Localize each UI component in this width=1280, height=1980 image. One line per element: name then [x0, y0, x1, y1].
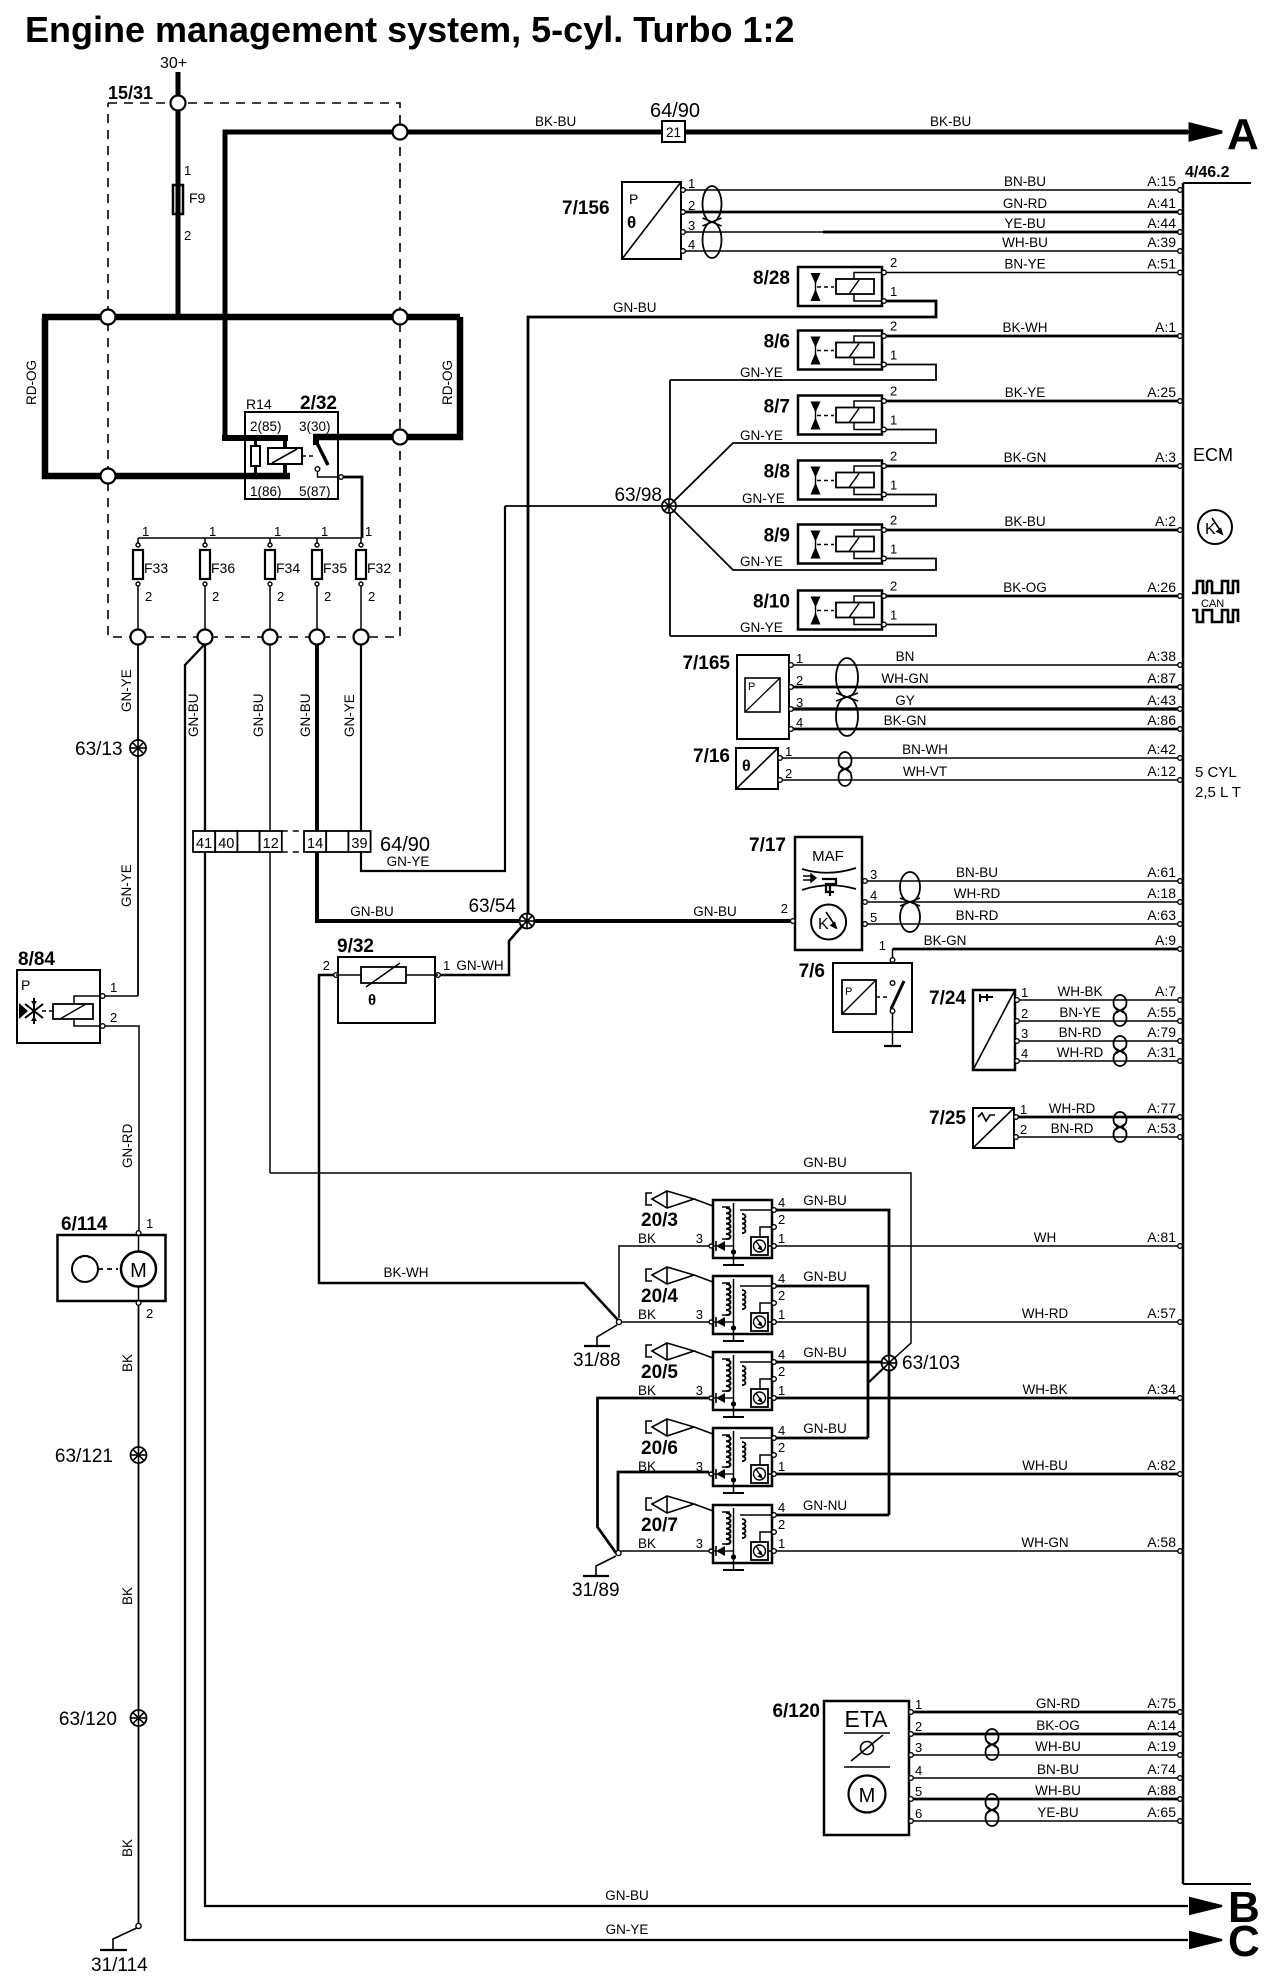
svg-text:GN-YE: GN-YE	[606, 1922, 649, 1937]
twisted pair 7/165	[836, 658, 858, 697]
svg-text:20/5: 20/5	[641, 1362, 678, 1383]
svg-text:1: 1	[1021, 985, 1028, 1000]
svg-text:14: 14	[307, 836, 323, 852]
svg-text:P: P	[845, 986, 852, 998]
wire GN-BU long feed to 63/103	[270, 1173, 911, 1363]
sensor 7/24	[973, 990, 1015, 1070]
svg-text:1: 1	[890, 608, 897, 623]
wire YE-BU to A:44	[685, 231, 823, 233]
wire BN-BU to A:15	[685, 189, 1178, 191]
fuse box 15/31 dashed outline	[108, 103, 400, 637]
svg-text:WH-BK: WH-BK	[1023, 1382, 1068, 1397]
svg-text:8/10: 8/10	[753, 592, 790, 613]
svg-text:1: 1	[688, 176, 695, 191]
svg-text:63/54: 63/54	[468, 896, 516, 917]
svg-text:P: P	[21, 977, 30, 993]
MAF K circle	[811, 905, 846, 940]
svg-text:1: 1	[274, 524, 281, 539]
svg-text:GN-BU: GN-BU	[803, 1193, 847, 1208]
injector 8/28	[798, 267, 882, 306]
svg-text:1: 1	[890, 284, 897, 299]
node fuse F33 on dashed box	[131, 630, 146, 645]
wire BN-YE to A:55	[1019, 1020, 1178, 1022]
ignition coil 20/3	[646, 1193, 652, 1205]
wire BK-BU from 8/9 to A:2	[886, 529, 1178, 532]
svg-text:BK-WH: BK-WH	[384, 1265, 429, 1280]
svg-text:A:75: A:75	[1147, 1695, 1176, 1711]
wire BK-GN from 8/8 to A:3	[886, 465, 1178, 468]
injector 8/6	[798, 331, 882, 370]
svg-text:GN-YE: GN-YE	[740, 620, 783, 635]
svg-text:4: 4	[778, 1271, 785, 1286]
svg-text:6/120: 6/120	[772, 1701, 820, 1722]
wire BN-BU to A:74	[913, 1777, 1178, 1779]
svg-text:4: 4	[778, 1500, 785, 1515]
sensor 7/25	[973, 1108, 1014, 1148]
svg-text:A:18: A:18	[1147, 885, 1176, 901]
svg-text:GN-WH: GN-WH	[456, 958, 503, 973]
svg-text:A:2: A:2	[1155, 513, 1176, 529]
wire BN-RD to A:53	[1018, 1136, 1178, 1138]
svg-text:30+: 30+	[160, 55, 187, 72]
svg-text:31/88: 31/88	[573, 1350, 621, 1371]
wire BK-GN to A:86	[793, 728, 1178, 731]
svg-text:1: 1	[365, 524, 372, 539]
wire relay 5(87) output to fuse rail	[343, 477, 362, 538]
wire BN-BU to A:61	[867, 880, 1178, 882]
ground 31/88	[616, 1319, 621, 1324]
svg-text:BK-BU: BK-BU	[930, 114, 971, 129]
svg-text:A:9: A:9	[1155, 932, 1176, 948]
svg-text:BK: BK	[638, 1536, 656, 1551]
wire BN to A:38	[793, 664, 1178, 666]
svg-text:BK: BK	[120, 1839, 135, 1857]
wire WH-BK from 20/5 pin 1 to A:34	[776, 1397, 1178, 1400]
wire GN-BU from F34 down (long)	[269, 644, 271, 1173]
svg-text:5: 5	[915, 1784, 922, 1799]
svg-text:WH-GN: WH-GN	[881, 671, 928, 686]
svg-text:A:74: A:74	[1147, 1761, 1176, 1777]
wire GN-YE return of 8/6	[670, 365, 936, 381]
svg-text:2: 2	[778, 1440, 785, 1455]
svg-text:M: M	[130, 1260, 147, 1282]
node left loop crosses dashed	[101, 469, 116, 484]
relay 2/32 (R14)	[245, 412, 338, 499]
svg-text:2: 2	[110, 1010, 117, 1025]
svg-text:4: 4	[915, 1763, 922, 1778]
svg-text:8/6: 8/6	[764, 332, 790, 353]
svg-text:8/9: 8/9	[764, 526, 790, 547]
svg-text:BN: BN	[896, 649, 915, 664]
svg-text:A:19: A:19	[1147, 1738, 1176, 1754]
svg-text:GN-BU: GN-BU	[251, 694, 266, 738]
svg-text:A:26: A:26	[1147, 579, 1176, 595]
wire BN-RD to A:79	[1019, 1040, 1178, 1042]
svg-text:A:43: A:43	[1147, 692, 1176, 708]
svg-text:2: 2	[324, 589, 331, 604]
svg-text:21: 21	[666, 125, 681, 140]
svg-text:BK-OG: BK-OG	[1036, 1718, 1080, 1733]
svg-text:1(86): 1(86)	[250, 484, 282, 499]
svg-text:YE-BU: YE-BU	[1037, 1805, 1078, 1820]
relay coil feed 2(85)	[222, 435, 288, 441]
svg-text:2: 2	[1021, 1006, 1028, 1021]
svg-text:F34: F34	[276, 560, 300, 576]
connector 64/90 pin 21 box	[662, 121, 685, 142]
svg-text:5(87): 5(87)	[299, 484, 331, 499]
ignition coil 20/6	[646, 1421, 652, 1433]
svg-text:5: 5	[870, 910, 877, 925]
svg-text:1: 1	[785, 744, 792, 759]
wire WH-BU from 20/6 pin 1 to A:82	[776, 1473, 1178, 1476]
wire WH-RD to A:18	[867, 901, 1178, 903]
svg-text:A:12: A:12	[1147, 763, 1176, 779]
svg-text:A:1: A:1	[1155, 319, 1176, 335]
svg-text:GN-YE: GN-YE	[740, 428, 783, 443]
sensor 7/165	[737, 655, 789, 739]
svg-text:2: 2	[146, 1306, 153, 1321]
wire GN-YE return of 8/9	[669, 506, 936, 570]
wire GN-BU 20/5 pin 4	[776, 1362, 889, 1363]
svg-text:A:55: A:55	[1147, 1004, 1176, 1020]
svg-text:1: 1	[915, 1697, 922, 1712]
wire BK-GN to A:9	[890, 958, 895, 963]
svg-text:A:51: A:51	[1147, 256, 1176, 272]
svg-text:20/3: 20/3	[641, 1210, 678, 1231]
svg-text:3: 3	[696, 1231, 703, 1246]
node fuse F35 on dashed box	[310, 630, 325, 645]
svg-text:1: 1	[321, 524, 328, 539]
svg-text:12: 12	[263, 836, 279, 852]
svg-text:θ: θ	[742, 758, 751, 775]
svg-text:2: 2	[778, 1364, 785, 1379]
svg-text:GN-YE: GN-YE	[740, 554, 783, 569]
svg-text:63/98: 63/98	[614, 485, 662, 506]
wire WH-GN from 20/7 pin 1 to A:58	[776, 1550, 1178, 1552]
svg-text:7/25: 7/25	[929, 1108, 966, 1129]
svg-text:A:81: A:81	[1147, 1229, 1176, 1245]
svg-text:WH-BU: WH-BU	[1035, 1783, 1081, 1798]
svg-text:WH-BK: WH-BK	[1058, 984, 1103, 999]
svg-text:1: 1	[1020, 1102, 1027, 1117]
svg-text:4: 4	[870, 888, 877, 903]
svg-text:BN-RD: BN-RD	[1059, 1025, 1102, 1040]
svg-text:1: 1	[879, 938, 886, 953]
wire WH-BK to A:7	[1019, 999, 1178, 1001]
svg-text:RD-OG: RD-OG	[24, 360, 39, 405]
node fuse F32 on dashed box	[354, 630, 369, 645]
svg-text:A:42: A:42	[1147, 741, 1176, 757]
svg-text:MAF: MAF	[812, 848, 844, 865]
wire BK 20/5 pin 3 to 31/89	[598, 1398, 710, 1553]
svg-text:A:14: A:14	[1147, 1717, 1176, 1733]
fuse F34	[269, 538, 271, 543]
svg-text:A:63: A:63	[1147, 907, 1176, 923]
twisted pair 7/25	[1114, 1112, 1127, 1127]
svg-text:BK: BK	[638, 1231, 656, 1246]
svg-text:GN-BU: GN-BU	[186, 694, 201, 738]
svg-text:31/114: 31/114	[91, 1955, 148, 1976]
svg-text:A:34: A:34	[1147, 1381, 1176, 1397]
svg-text:P: P	[629, 191, 638, 207]
svg-text:5 CYL: 5 CYL	[1195, 764, 1237, 781]
svg-text:GN-RD: GN-RD	[1036, 1696, 1080, 1711]
svg-text:3(30): 3(30)	[299, 419, 331, 434]
svg-text:1: 1	[209, 524, 216, 539]
ignition coil 20/5	[646, 1345, 652, 1357]
svg-text:A:3: A:3	[1155, 449, 1176, 465]
wire GN-YE return of 8/8	[676, 495, 936, 507]
twisted pair 7/17	[900, 872, 920, 902]
svg-text:20/4: 20/4	[641, 1286, 678, 1307]
svg-text:GN-YE: GN-YE	[742, 491, 785, 506]
svg-text:BN-RD: BN-RD	[1051, 1121, 1094, 1136]
svg-text:GN-BU: GN-BU	[803, 1269, 847, 1284]
svg-text:2: 2	[915, 1719, 922, 1734]
svg-text:GN-RD: GN-RD	[1003, 196, 1047, 211]
svg-text:2: 2	[890, 579, 897, 594]
svg-text:4: 4	[688, 237, 695, 252]
svg-text:GN-BU: GN-BU	[298, 694, 313, 738]
svg-text:A:7: A:7	[1155, 983, 1176, 999]
svg-text:A:65: A:65	[1147, 1804, 1176, 1820]
svg-text:7/24: 7/24	[929, 988, 966, 1009]
node on dashed box top	[171, 96, 186, 111]
svg-text:BK-BU: BK-BU	[1004, 514, 1045, 529]
wire RD-OG top rail	[42, 314, 460, 321]
svg-text:K: K	[818, 916, 829, 933]
svg-text:BK-BU: BK-BU	[535, 114, 576, 129]
svg-text:3: 3	[915, 1740, 922, 1755]
svg-text:A:79: A:79	[1147, 1024, 1176, 1040]
svg-text:C: C	[1228, 1917, 1260, 1966]
svg-text:3: 3	[696, 1307, 703, 1322]
node rail crosses dashed left	[101, 310, 116, 325]
svg-text:F35: F35	[323, 560, 347, 576]
twisted pair 7/16	[839, 752, 852, 769]
svg-text:4: 4	[778, 1347, 785, 1362]
svg-text:2: 2	[145, 589, 152, 604]
sensor 7/16 (temp)	[736, 748, 778, 789]
wire GY to A:43	[793, 707, 1178, 710]
fuse F32	[360, 538, 362, 543]
svg-text:BK: BK	[638, 1307, 656, 1322]
wire GN-RD to A:75	[913, 1711, 1178, 1714]
svg-text:WH-BU: WH-BU	[1002, 235, 1048, 250]
svg-text:40: 40	[218, 836, 234, 852]
wire GN-BU thick from F35 to 63/54	[317, 644, 523, 921]
svg-text:BN-BU: BN-BU	[956, 865, 998, 880]
svg-text:64/90: 64/90	[380, 834, 430, 856]
svg-text:GN-BU: GN-BU	[605, 1888, 649, 1903]
svg-text:2: 2	[890, 255, 897, 270]
svg-text:ECM: ECM	[1193, 445, 1233, 465]
arrow C head	[1190, 1932, 1222, 1948]
svg-text:64/90: 64/90	[650, 100, 700, 122]
wire GN-BU 20/4 pin 4	[776, 1286, 868, 1438]
sensor 7/156 (pressure/temp)	[622, 182, 681, 259]
svg-text:2: 2	[890, 384, 897, 399]
svg-text:1: 1	[890, 478, 897, 493]
svg-text:2(85): 2(85)	[250, 419, 282, 434]
svg-text:R14: R14	[246, 396, 272, 412]
svg-text:BK-WH: BK-WH	[1003, 320, 1048, 335]
svg-text:K: K	[1205, 521, 1216, 538]
ground at 7/6	[884, 1045, 901, 1047]
svg-text:2,5 L T: 2,5 L T	[1195, 784, 1241, 801]
ground 31/89	[616, 1550, 621, 1555]
svg-text:39: 39	[351, 836, 367, 852]
wire BK-OG to A:14	[913, 1733, 1178, 1736]
svg-text:GN-YE: GN-YE	[387, 854, 430, 869]
svg-text:1: 1	[796, 651, 803, 666]
svg-text:BN-BU: BN-BU	[1004, 174, 1046, 189]
ground 31/114	[136, 1923, 141, 1928]
svg-text:F33: F33	[144, 560, 168, 576]
wire WH-RD from 20/4 pin 1 to A:57	[776, 1321, 1178, 1323]
svg-text:7/16: 7/16	[693, 746, 730, 767]
svg-text:1: 1	[142, 524, 149, 539]
wire BK 20/4 pin 3 to 31/88	[622, 1321, 709, 1323]
wire BK-BU main feed to A	[225, 132, 1188, 437]
svg-text:20/6: 20/6	[641, 1438, 678, 1459]
arrow B head	[1190, 1898, 1222, 1914]
svg-text:6: 6	[915, 1806, 922, 1821]
svg-text:GN-YE: GN-YE	[342, 694, 357, 737]
fuse F33	[137, 538, 139, 543]
sensor 7/17 MAF	[795, 837, 862, 950]
svg-text:4/46.2: 4/46.2	[1185, 164, 1230, 181]
svg-text:A:31: A:31	[1147, 1044, 1176, 1060]
svg-text:2: 2	[1020, 1122, 1027, 1137]
svg-text:6/114: 6/114	[61, 1214, 108, 1235]
svg-text:BK: BK	[120, 1354, 135, 1372]
svg-text:2: 2	[890, 449, 897, 464]
svg-text:GN-BU: GN-BU	[803, 1345, 847, 1360]
svg-text:F32: F32	[367, 560, 391, 576]
fuse F9	[173, 185, 183, 214]
svg-text:ETA: ETA	[844, 1706, 888, 1732]
svg-text:4: 4	[1021, 1046, 1028, 1061]
node BK-BU crosses dashed box	[393, 125, 408, 140]
svg-text:WH-RD: WH-RD	[954, 886, 1001, 901]
svg-text:CAN: CAN	[1201, 598, 1224, 610]
wire GN-WH 9/32 to 63/54	[440, 925, 523, 975]
svg-text:2: 2	[778, 1212, 785, 1227]
svg-text:2: 2	[890, 513, 897, 528]
svg-text:2: 2	[781, 901, 788, 916]
ignition coil 20/4	[646, 1269, 652, 1281]
svg-text:F9: F9	[189, 190, 206, 206]
wire WH from 20/3 pin 1 to A:81	[776, 1245, 1178, 1247]
svg-text:2: 2	[890, 319, 897, 334]
svg-text:A:38: A:38	[1147, 648, 1176, 664]
injector 8/8	[798, 461, 882, 500]
junction 63/103	[868, 1363, 889, 1383]
svg-text:BN-YE: BN-YE	[1059, 1005, 1100, 1020]
svg-text:θ: θ	[368, 992, 376, 1009]
svg-text:63/13: 63/13	[75, 739, 123, 760]
svg-text:A:88: A:88	[1147, 1782, 1176, 1798]
svg-text:1: 1	[110, 980, 117, 995]
svg-text:4: 4	[778, 1195, 785, 1210]
wire BK-OG from 8/10 to A:26	[886, 595, 1178, 598]
wire GN-YE from F32 to 63/98 hub	[361, 506, 505, 871]
fuse F35	[316, 538, 318, 543]
wire GN-NU 20/7 pin 4	[776, 1514, 889, 1517]
wire BK from 6/114 down	[138, 1305, 140, 1924]
wire BN-RD to A:63	[867, 923, 1178, 925]
wire BK-WH from 8/6 to A:1	[886, 335, 1178, 338]
node fuse F34 on dashed box	[263, 630, 278, 645]
svg-text:A:86: A:86	[1147, 712, 1176, 728]
svg-text:2: 2	[212, 589, 219, 604]
svg-text:A:44: A:44	[1147, 215, 1176, 231]
ECM connector bus 4/46.2	[1182, 183, 1185, 1884]
svg-text:7/17: 7/17	[749, 835, 786, 856]
twisted pairs 7/24	[1114, 995, 1127, 1011]
svg-text:BK: BK	[638, 1383, 656, 1398]
svg-text:BN-BU: BN-BU	[1037, 1762, 1079, 1777]
svg-text:A:77: A:77	[1147, 1100, 1176, 1116]
twisted pairs 6/120	[986, 1729, 999, 1745]
svg-text:A:41: A:41	[1147, 195, 1176, 211]
svg-text:θ: θ	[627, 213, 636, 232]
svg-text:A:15: A:15	[1147, 173, 1176, 189]
svg-text:GN-BU: GN-BU	[350, 904, 394, 919]
wire WH-BU to A:19	[913, 1754, 1178, 1756]
svg-text:2/32: 2/32	[300, 393, 337, 414]
ECM K-line symbol	[1198, 510, 1232, 544]
svg-text:YE-BU: YE-BU	[1004, 216, 1045, 231]
wire WH-BU to A:88	[913, 1798, 1178, 1801]
ignition coil 20/7	[646, 1498, 652, 1510]
svg-text:BK-YE: BK-YE	[1005, 385, 1046, 400]
CAN bus symbol	[1192, 581, 1238, 593]
svg-text:GN-YE: GN-YE	[119, 669, 134, 712]
valve 8/84	[17, 970, 100, 1043]
wire GN-YE branch to arrow C	[185, 645, 1188, 1940]
svg-text:A: A	[1227, 110, 1259, 159]
svg-text:3: 3	[1021, 1026, 1028, 1041]
svg-text:2: 2	[184, 228, 191, 243]
svg-text:3: 3	[688, 218, 695, 233]
wire GN-RD 8/84 to 6/114	[105, 1026, 139, 1231]
pump 6/114	[58, 1235, 166, 1301]
wire BK 20/6 pin 3 to 31/89	[618, 1472, 709, 1550]
svg-text:2: 2	[323, 958, 330, 973]
svg-text:F36: F36	[211, 560, 235, 576]
wire WH-RD to A:31	[1019, 1060, 1178, 1062]
svg-text:A:25: A:25	[1147, 384, 1176, 400]
svg-text:GN-BU: GN-BU	[803, 1421, 847, 1436]
wire YE-BU to A:65	[913, 1820, 1178, 1822]
svg-text:A:87: A:87	[1147, 670, 1176, 686]
wire GN-YE return of 8/10	[670, 625, 936, 637]
relay switch contact	[302, 455, 313, 457]
fuse F36	[204, 538, 206, 543]
wire BK 20/3 pin 3 to 31/88	[619, 1246, 709, 1318]
injector 8/10	[798, 591, 882, 630]
svg-text:8/7: 8/7	[764, 397, 790, 418]
injector 8/9	[798, 525, 882, 564]
svg-text:4: 4	[778, 1423, 785, 1438]
wire BK-WH from 9/32 pin 2 to ground 31/88	[319, 975, 618, 1320]
svg-text:WH-RD: WH-RD	[1022, 1306, 1069, 1321]
pressure switch 7/6	[833, 963, 912, 1032]
svg-text:GN-NU: GN-NU	[803, 1498, 847, 1513]
wire RD-OG left loop	[45, 317, 290, 476]
